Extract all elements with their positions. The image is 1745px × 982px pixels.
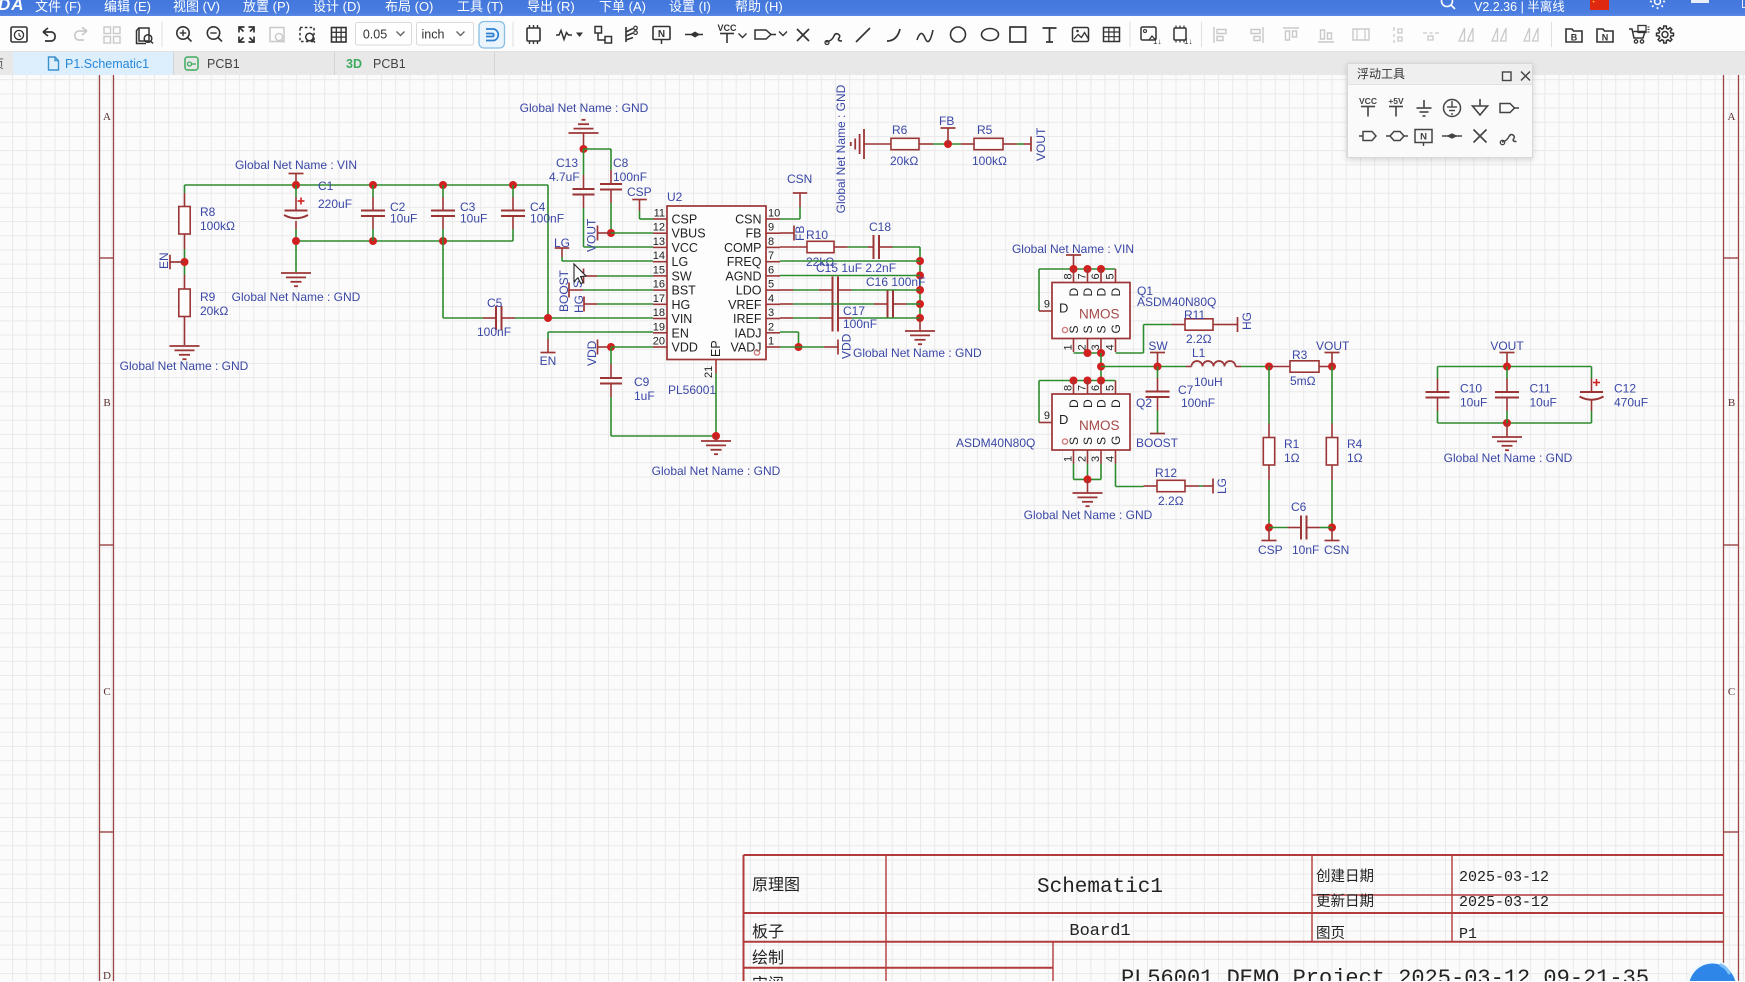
- power tail VOUT bank: [1500, 352, 1515, 354]
- wire pin 7 FREQ: [780, 260, 920, 262]
- ground below R9: [170, 345, 200, 347]
- toolbar icon: probe: [826, 34, 842, 42]
- svg-text:VDD: VDD: [840, 333, 854, 359]
- U2 pin 2 IADJ: [766, 332, 780, 334]
- net label BOOST at pin 16: [568, 283, 570, 298]
- svg-text:1Ω: 1Ω: [1347, 451, 1363, 465]
- lead C12 bottom: [1591, 400, 1593, 411]
- net label VDD at pin 20: [597, 340, 599, 355]
- wire C9 to EP gnd: [611, 435, 716, 437]
- toolbar icon: export image: [1141, 27, 1156, 40]
- lead C17 left: [819, 317, 833, 319]
- svg-text:C18: C18: [869, 220, 891, 234]
- toolbar icon: text: [1043, 28, 1057, 42]
- wire to pin 17: [597, 303, 653, 305]
- U2 pin 17 HG: [653, 303, 667, 305]
- svg-text:G: G: [1109, 324, 1123, 333]
- lead C15 right: [838, 289, 852, 291]
- svg-text:C13: C13: [556, 156, 578, 170]
- wire Q1 source tie: [1074, 352, 1102, 354]
- svg-text:R11: R11: [1184, 308, 1205, 322]
- svg-text:D: D: [1095, 288, 1109, 297]
- resistor R8: [179, 207, 190, 235]
- wire to pin 20: [611, 346, 653, 348]
- U2 pin 19 EN: [653, 332, 667, 334]
- toolbar icon: net label: [653, 27, 670, 40]
- lead bank gnd: [1506, 423, 1508, 437]
- net label LG at pin 14: [555, 247, 570, 249]
- junction Q1 S: [1084, 349, 1092, 357]
- junction Q2 drain: [1070, 377, 1078, 385]
- junction VIN/C4: [509, 181, 517, 189]
- wire bank top rail: [1438, 366, 1592, 368]
- svg-text:更新日期: 更新日期: [1316, 893, 1374, 910]
- wire EN down: [547, 332, 549, 339]
- toolbar icon: port: [755, 30, 771, 39]
- svg-text:U2: U2: [667, 190, 683, 204]
- svg-text:VDD: VDD: [672, 340, 698, 354]
- net label VDD tail: [837, 340, 839, 355]
- svg-text:4.7uF: 4.7uF: [549, 170, 580, 184]
- lead EN label: [547, 339, 549, 353]
- U2 pin 8 COMP: [766, 246, 780, 248]
- svg-text:R4: R4: [1347, 437, 1363, 451]
- U2 pin 12 VBUS: [653, 232, 667, 234]
- wire C13 to VCC: [583, 208, 585, 247]
- wire Q1 gate: [1116, 352, 1144, 354]
- svg-text:绘制: 绘制: [752, 949, 784, 967]
- svg-text:Global Net Name : GND: Global Net Name : GND: [1024, 508, 1153, 522]
- svg-text:N: N: [1420, 132, 1427, 143]
- svg-text:CSP: CSP: [627, 185, 652, 199]
- svg-text:C: C: [103, 686, 110, 698]
- svg-text:10uH: 10uH: [1194, 375, 1223, 389]
- junction EN/R8/R9: [181, 258, 189, 266]
- wire gnd to C8: [584, 148, 612, 150]
- wire to pin 14: [562, 260, 653, 262]
- resistor R9: [179, 289, 190, 317]
- wire VIN-C3: [442, 185, 444, 197]
- svg-text:8: 8: [1063, 385, 1075, 391]
- junction Q1 drain: [1097, 265, 1105, 273]
- svg-text:HG: HG: [572, 295, 586, 313]
- junction SW: [1097, 363, 1105, 371]
- toolbar icon: zoom fit: [239, 27, 254, 42]
- svg-text:1Ω: 1Ω: [1284, 451, 1300, 465]
- svg-text:470uF: 470uF: [1614, 396, 1648, 410]
- wire to pin 16: [583, 289, 653, 291]
- svg-text:R1: R1: [1284, 437, 1300, 451]
- capacitor C16: [887, 291, 889, 318]
- transistor Q1 ASDM40N80Q: [1052, 283, 1130, 339]
- svg-text:2025-03-12: 2025-03-12: [1459, 869, 1549, 886]
- svg-text:9: 9: [1044, 299, 1050, 311]
- svg-text:20kΩ: 20kΩ: [200, 304, 228, 318]
- capacitor C12 (polarized): [1580, 391, 1603, 393]
- lead CSP label: [1268, 528, 1270, 541]
- lead C2 bottom: [372, 216, 374, 229]
- U2 pin 16 BST: [653, 289, 667, 291]
- lead C15 left: [819, 289, 833, 291]
- wire cap bottom bus: [296, 240, 513, 242]
- svg-text:P1: P1: [1459, 926, 1477, 943]
- net label HG tail: [1237, 317, 1239, 332]
- wire pin3: [793, 317, 819, 319]
- svg-text:Board1: Board1: [1069, 922, 1130, 941]
- svg-text:5: 5: [768, 279, 774, 291]
- net label EN (left): [170, 261, 185, 263]
- svg-text:6: 6: [1090, 385, 1102, 391]
- capacitor C11: [1495, 391, 1519, 393]
- junction EP/C9 gnd: [712, 432, 720, 440]
- svg-text:S: S: [1081, 437, 1095, 445]
- lead R10 right: [834, 246, 848, 248]
- toolbar icon: zoom in: [177, 27, 189, 39]
- svg-text:Global Net Name : GND: Global Net Name : GND: [853, 346, 982, 360]
- svg-text:C16 100nF: C16 100nF: [866, 275, 925, 289]
- svg-text:HG: HG: [1240, 312, 1254, 330]
- svg-text:4: 4: [1105, 344, 1117, 350]
- ground bank: [1492, 436, 1522, 438]
- svg-text:板子: 板子: [752, 923, 784, 941]
- junction bus/VREF: [916, 300, 924, 308]
- svg-text:D: D: [1081, 288, 1095, 297]
- svg-text:Global Net Name : GND: Global Net Name : GND: [652, 464, 781, 478]
- junction Q1 drain: [1070, 265, 1078, 273]
- net label LG tail: [1212, 479, 1214, 494]
- svg-text:ASDM40N80Q: ASDM40N80Q: [1137, 295, 1216, 309]
- svg-text:FB: FB: [939, 114, 954, 128]
- wire L1 to R3: [1241, 366, 1269, 368]
- wire EP to gnd: [715, 374, 717, 437]
- capacitor C7: [1146, 391, 1170, 393]
- svg-text:IREF: IREF: [733, 312, 762, 326]
- svg-text:C12: C12: [1614, 382, 1636, 396]
- wire Q1S to Q2D: [1100, 353, 1102, 381]
- svg-text:+5V: +5V: [1388, 96, 1404, 106]
- IC U2 PL56001 body: [667, 206, 766, 360]
- U2 pin 10 CSN: [766, 218, 780, 220]
- U2 pin 3 IREF: [766, 318, 780, 320]
- svg-text:3: 3: [1090, 456, 1102, 462]
- svg-text:EP: EP: [709, 340, 723, 357]
- junction Q2 drain: [1084, 377, 1092, 385]
- wire to C11: [1506, 367, 1508, 379]
- toolbar icon: netlist: [1597, 29, 1613, 42]
- svg-text:10: 10: [768, 208, 780, 220]
- svg-text:CSN: CSN: [787, 172, 812, 186]
- svg-text:FB: FB: [746, 227, 762, 241]
- svg-text:VCC: VCC: [1359, 96, 1377, 106]
- svg-text:C7: C7: [1178, 383, 1194, 397]
- palette icon: chassis ground: [1479, 99, 1481, 106]
- transistor Q2 ASDM40N80Q: [1052, 394, 1130, 450]
- toolbar icon: net flag: [685, 34, 703, 36]
- svg-text:VIN: VIN: [672, 312, 693, 326]
- lead bus to gnd: [919, 318, 921, 331]
- svg-text:VCC: VCC: [672, 241, 698, 255]
- svg-text:SW: SW: [1148, 339, 1168, 353]
- lead C17 right: [838, 317, 852, 319]
- capacitor C15: [832, 277, 834, 304]
- svg-text:C15 1uF 2.2nF: C15 1uF 2.2nF: [816, 261, 896, 275]
- net label CSN at pin 10: [780, 218, 800, 220]
- lead C16 right: [893, 303, 907, 305]
- svg-text:17: 17: [653, 293, 665, 305]
- junction C1 bottom: [292, 237, 300, 245]
- svg-text:R6: R6: [892, 123, 908, 137]
- wire C18 to right bus: [893, 246, 921, 248]
- svg-text:3: 3: [768, 307, 774, 319]
- U2 pin 9 FB: [766, 232, 780, 234]
- junction VOUT/VBUS: [607, 229, 615, 237]
- toolbar icon: no connect: [797, 29, 809, 41]
- svg-text:13: 13: [653, 236, 665, 248]
- lead C9 bottom: [610, 384, 612, 398]
- capacitor C5: [495, 306, 497, 330]
- junction VDD/C9: [607, 343, 615, 351]
- svg-text:2.2Ω: 2.2Ω: [1186, 332, 1212, 346]
- palette icon: earth ground: [1444, 100, 1461, 117]
- junction bus/FREQ: [916, 257, 924, 265]
- svg-text:S: S: [1095, 437, 1109, 445]
- svg-text:4: 4: [1105, 456, 1117, 462]
- svg-text:S: S: [1095, 325, 1109, 333]
- lead R11 left: [1172, 324, 1186, 326]
- wire C9 down: [610, 397, 612, 436]
- svg-text:Q2: Q2: [1136, 396, 1152, 410]
- Q1 pin 9: [1039, 310, 1052, 312]
- help floating button: [1683, 947, 1745, 981]
- svg-text:100kΩ: 100kΩ: [200, 219, 235, 233]
- svg-text:2: 2: [768, 321, 774, 333]
- svg-text:5: 5: [1105, 273, 1117, 279]
- svg-text:Global Net Name : VIN: Global Net Name : VIN: [1012, 242, 1134, 256]
- svg-text:LDO: LDO: [736, 284, 762, 298]
- wire gnd-C13: [583, 149, 585, 175]
- U2 pin 7 FREQ: [766, 261, 780, 263]
- svg-text:14: 14: [653, 250, 665, 262]
- junction VIN/C5/pin18: [544, 314, 552, 322]
- lead CSN label: [1331, 528, 1333, 541]
- toolbar icon: settings: [1657, 26, 1674, 43]
- net label FB tail: [941, 127, 956, 129]
- svg-text:7: 7: [1077, 273, 1089, 279]
- U2 pin 13 VCC: [653, 246, 667, 248]
- wire VIN vertical: [547, 185, 549, 318]
- resistor R1: [1263, 438, 1274, 466]
- svg-text:1: 1: [768, 335, 774, 347]
- toolbar icons: align/distribute/mirror (disabled): [1214, 27, 1226, 43]
- svg-text:10uF: 10uF: [1460, 396, 1487, 410]
- net label VOUT at VBUS: [597, 226, 599, 241]
- resistor R5: [974, 138, 1003, 149]
- wire to pin 12 VBUS: [611, 232, 653, 234]
- svg-text:D: D: [1109, 288, 1123, 297]
- wire to C5: [443, 317, 483, 319]
- svg-text:4: 4: [768, 293, 774, 305]
- toolbar icon: BOM: [1566, 29, 1582, 42]
- junction C2 bottom: [369, 237, 377, 245]
- toolbar icon: arc: [887, 29, 900, 41]
- svg-text:BST: BST: [672, 284, 697, 298]
- wire VIN-C1: [295, 185, 297, 197]
- svg-text:C6: C6: [1291, 500, 1307, 514]
- svg-text:R5: R5: [977, 123, 993, 137]
- wire Q1 pin9 drop: [1038, 269, 1040, 311]
- svg-text:R8: R8: [200, 205, 216, 219]
- capacitor C18: [873, 235, 875, 259]
- toolbar icon: bezier: [917, 30, 933, 42]
- net label VOUT tail: [1030, 137, 1032, 152]
- junction bus/LDO: [916, 286, 924, 294]
- svg-text:CSN: CSN: [1324, 543, 1349, 557]
- resistor R3: [1290, 361, 1319, 372]
- svg-text:VREF: VREF: [728, 298, 762, 312]
- svg-text:7: 7: [1077, 385, 1089, 391]
- toolbar icon: ellipse: [982, 29, 999, 41]
- wire Q2 gate down: [1115, 464, 1117, 487]
- svg-text:100nF: 100nF: [1181, 396, 1215, 410]
- net label HG at pin 17: [583, 297, 585, 312]
- svg-text:C10: C10: [1460, 382, 1482, 396]
- svg-text:VOUT: VOUT: [1034, 127, 1048, 161]
- toolbar icon: zoom out: [207, 27, 219, 39]
- wire pin 2 IADJ: [780, 331, 799, 333]
- svg-text:100kΩ: 100kΩ: [972, 154, 1007, 168]
- palette icon: netport out: [1500, 104, 1515, 113]
- lead R10 left: [780, 246, 807, 248]
- net label FB at pin 9: [780, 232, 794, 234]
- wire C5 to pin VIN: [515, 317, 653, 319]
- wire to pin 13 VCC: [584, 246, 654, 248]
- lead R11 right: [1213, 324, 1227, 326]
- net label EN tail: [541, 352, 556, 354]
- wire R4 to CSN: [1331, 480, 1333, 528]
- junction FB: [944, 140, 952, 148]
- svg-text:VOUT: VOUT: [585, 218, 599, 252]
- junction VIN/C1: [292, 181, 300, 189]
- wire Q2 S1 ext: [1073, 464, 1075, 480]
- U2 pin 6 AGND: [766, 275, 780, 277]
- U2 pin 4 VREF: [766, 303, 780, 305]
- toolbar icon: wire: [556, 31, 572, 40]
- svg-text:创建日期: 创建日期: [1316, 868, 1374, 885]
- wire Q1 drain rail: [1039, 268, 1116, 270]
- svg-text:G: G: [1109, 436, 1123, 445]
- svg-text:VDD: VDD: [585, 340, 599, 366]
- inductor L1: [1186, 366, 1192, 368]
- wire VIN rail: [185, 184, 549, 186]
- svg-text:C8: C8: [613, 156, 629, 170]
- svg-text:CSP: CSP: [672, 213, 698, 227]
- svg-text:NMOS: NMOS: [1079, 307, 1120, 322]
- svg-text:BOOST: BOOST: [1136, 436, 1179, 450]
- svg-text:A: A: [103, 111, 111, 123]
- wire to pin 11: [640, 218, 654, 220]
- junction C3 bottom: [439, 237, 447, 245]
- capacitor C4: [501, 210, 525, 212]
- junction C13/C8 gnd: [580, 145, 588, 153]
- svg-text:1: 1: [1063, 344, 1075, 350]
- svg-text:100nF: 100nF: [477, 325, 511, 339]
- wire VDD-C9: [610, 347, 612, 364]
- svg-text:EN: EN: [540, 354, 557, 368]
- svg-text:C9: C9: [634, 375, 650, 389]
- svg-text:D: D: [1059, 301, 1068, 316]
- svg-text:VOUT: VOUT: [1490, 339, 1524, 353]
- svg-text:1uF: 1uF: [634, 389, 655, 403]
- wire Q2 S3 ext: [1100, 464, 1102, 480]
- toolbar icon: place component: [527, 28, 540, 41]
- U2 pin 15 SW: [653, 275, 667, 277]
- resistor R4: [1326, 438, 1337, 466]
- svg-text:COMP: COMP: [724, 241, 762, 255]
- U2 pin 20 VDD: [653, 346, 667, 348]
- svg-text:CSN: CSN: [735, 213, 761, 227]
- lead R5 right: [1003, 143, 1017, 145]
- svg-text:S: S: [1067, 437, 1081, 445]
- svg-text:L1: L1: [1192, 346, 1206, 360]
- U2 pin 14 LG: [653, 261, 667, 263]
- svg-text:A: A: [1728, 111, 1736, 123]
- wire to C10: [1437, 367, 1439, 379]
- toolbar icon: bus: [626, 27, 633, 42]
- svg-text:D: D: [103, 970, 111, 981]
- wire VIN-C2: [372, 185, 374, 197]
- svg-text:11: 11: [654, 208, 665, 220]
- resistor R11: [1185, 319, 1213, 330]
- U2 pin 1 VADJ: [766, 346, 780, 348]
- svg-text:Global Net Name : VIN: Global Net Name : VIN: [235, 158, 357, 172]
- resistor R10: [807, 241, 834, 252]
- wire SW to C7: [1157, 367, 1159, 379]
- svg-text:1: 1: [1063, 456, 1075, 462]
- palette icon: signal probe: [1502, 135, 1517, 143]
- svg-text:9: 9: [1044, 410, 1050, 422]
- resistor R6: [891, 138, 919, 149]
- junction Q2 S: [1084, 475, 1092, 483]
- svg-text:9: 9: [768, 222, 774, 234]
- svg-text:AGND: AGND: [725, 269, 761, 283]
- junction Q1 S2: [1097, 349, 1105, 357]
- svg-text:BOOST: BOOST: [557, 269, 571, 312]
- svg-text:LG: LG: [554, 236, 570, 250]
- ground right bus: [905, 330, 935, 332]
- lead R1 bottom: [1268, 465, 1270, 480]
- wire Q2 pin9 drop: [1038, 381, 1040, 423]
- svg-text:C1: C1: [318, 179, 334, 193]
- lead C5 right: [502, 317, 516, 319]
- net label CSP tail: [1262, 540, 1277, 542]
- wire EN to pin 19: [548, 331, 653, 333]
- svg-text:EN: EN: [157, 252, 171, 269]
- junction VIN/C3: [439, 181, 447, 189]
- svg-text:220uF: 220uF: [318, 197, 352, 211]
- lead C18 left: [868, 246, 874, 248]
- svg-text:VADJ: VADJ: [730, 340, 761, 354]
- junction R3/VOUT/R4: [1328, 363, 1336, 371]
- resistor R12: [1157, 480, 1185, 491]
- lead R12 right: [1185, 485, 1199, 487]
- svg-text:100nF: 100nF: [530, 212, 564, 226]
- svg-text:VBUS: VBUS: [672, 227, 706, 241]
- lead C4 bottom: [512, 216, 514, 229]
- Q2 pin 9: [1039, 422, 1052, 424]
- wire C1 to GND: [295, 229, 297, 272]
- svg-text:SW: SW: [672, 269, 692, 283]
- svg-text:2: 2: [1077, 456, 1089, 462]
